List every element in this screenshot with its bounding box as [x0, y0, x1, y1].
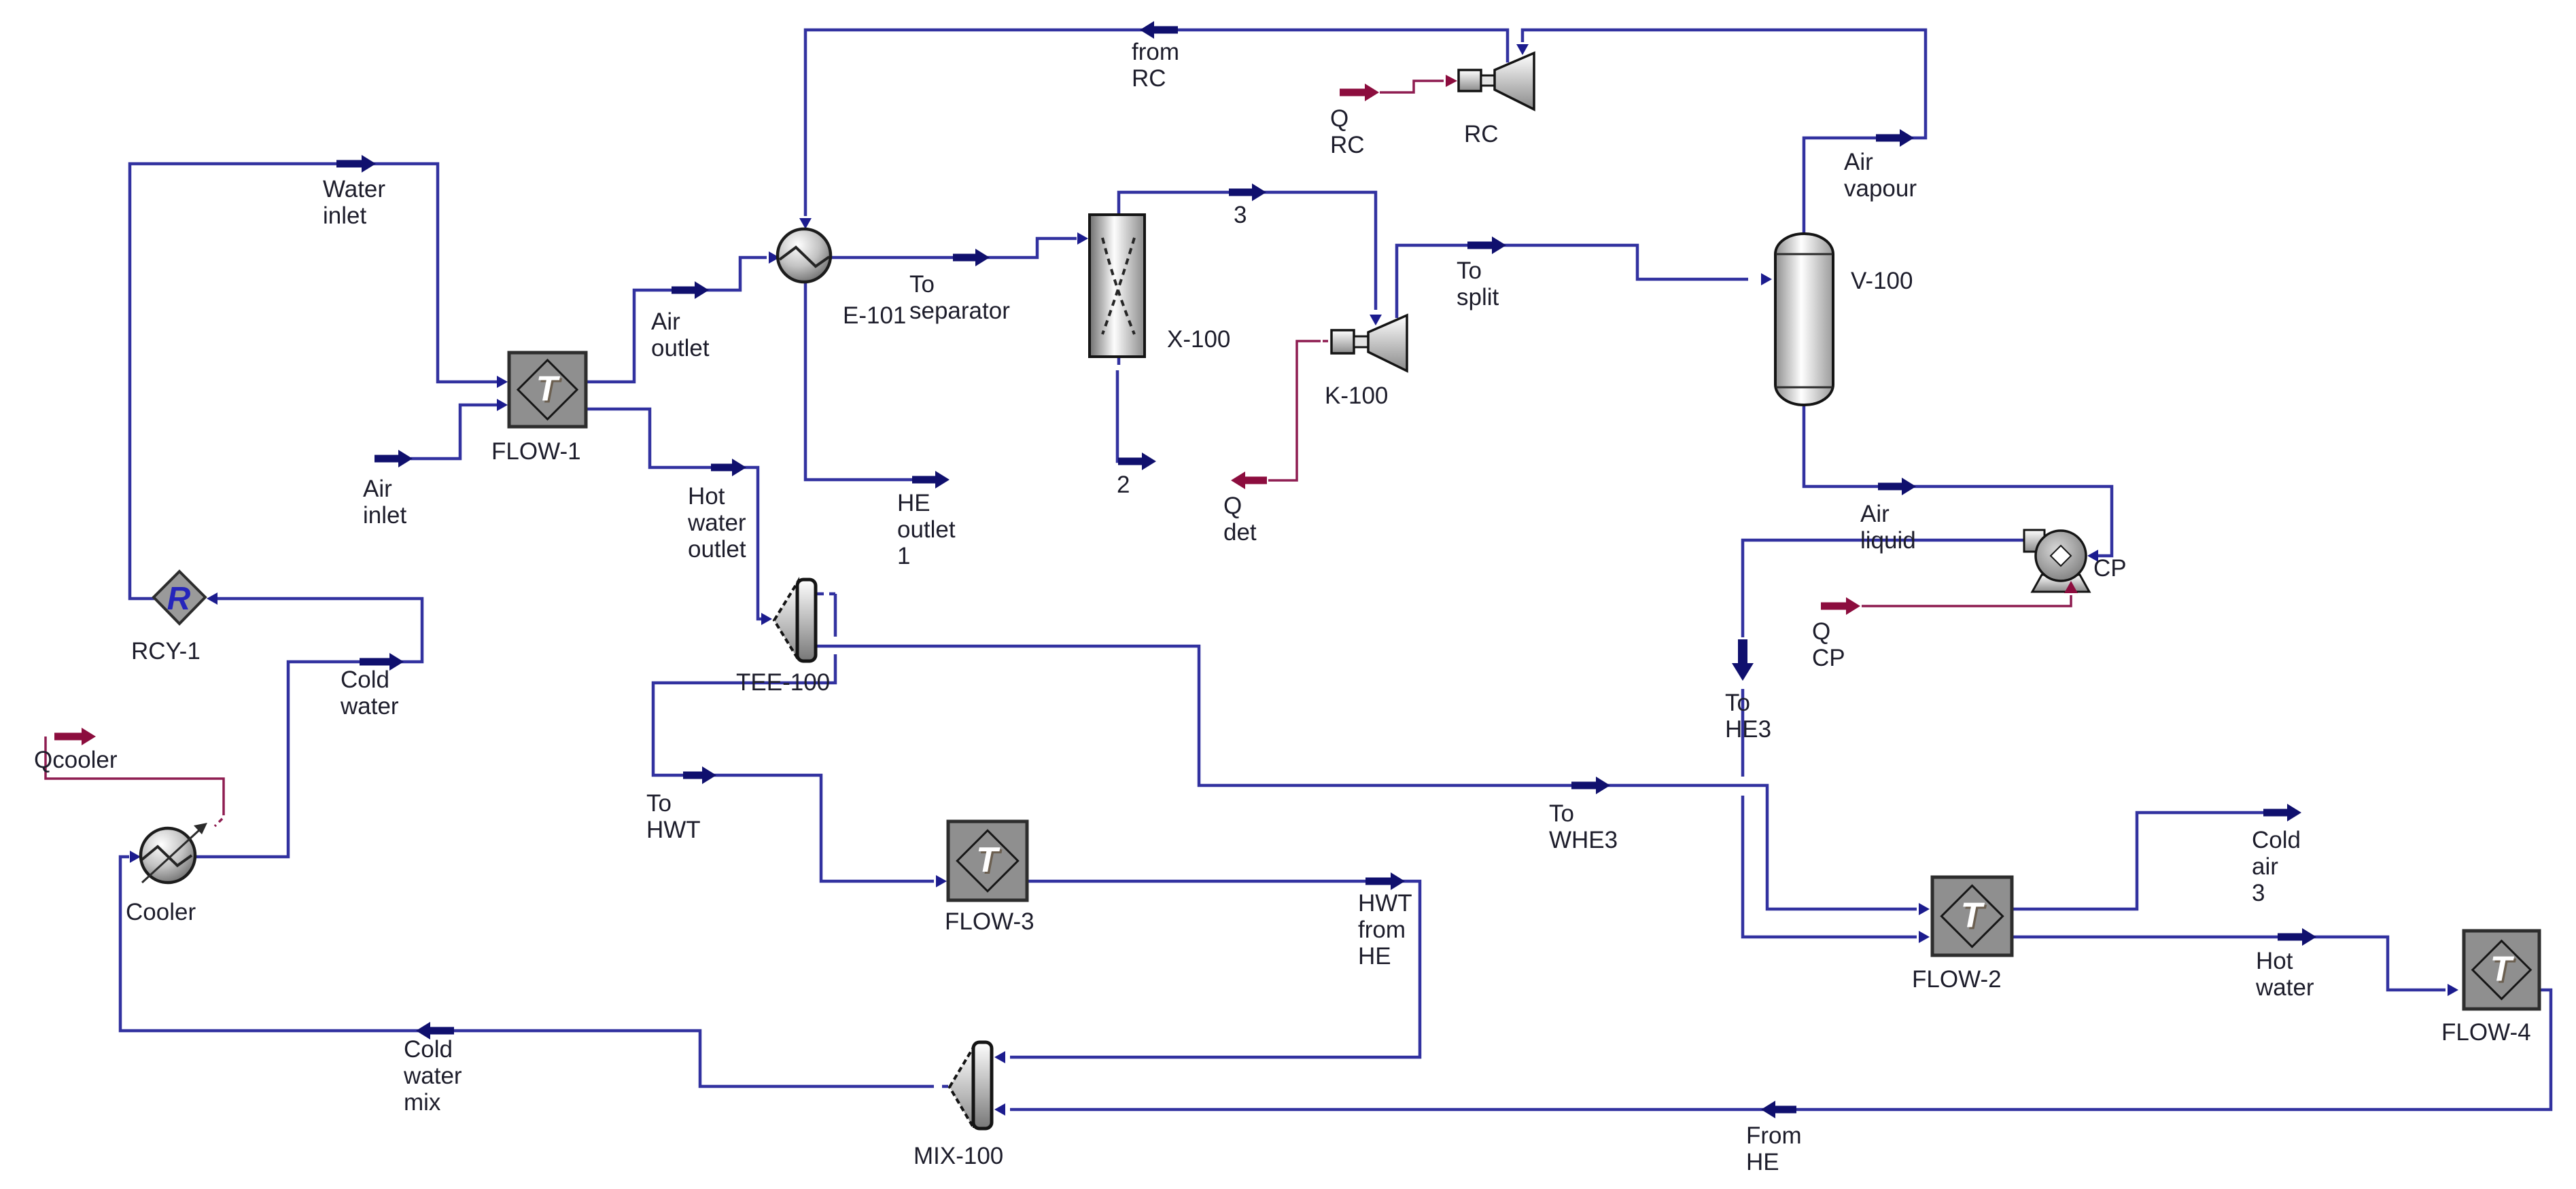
svg-text:split: split: [1457, 284, 1499, 310]
svg-text:HE: HE: [1358, 943, 1391, 970]
svg-text:T: T: [976, 840, 1000, 880]
svg-text:Q: Q: [1223, 493, 1242, 519]
svg-text:water: water: [687, 510, 746, 536]
svg-text:T: T: [1961, 896, 1985, 936]
svg-text:Air: Air: [1844, 149, 1873, 175]
svg-text:Air: Air: [363, 476, 392, 502]
svg-text:RC: RC: [1132, 65, 1166, 92]
svg-text:RC: RC: [1330, 132, 1365, 158]
svg-text:FLOW-1: FLOW-1: [491, 438, 581, 465]
svg-text:HWT: HWT: [1358, 890, 1412, 917]
svg-text:air: air: [2252, 853, 2278, 880]
svg-text:outlet: outlet: [651, 335, 710, 361]
svg-text:3: 3: [1234, 202, 1247, 228]
svg-text:vapour: vapour: [1844, 175, 1917, 202]
svg-text:HE3: HE3: [1725, 716, 1771, 743]
svg-text:CP: CP: [1812, 645, 1845, 671]
svg-text:outlet: outlet: [897, 516, 956, 543]
svg-text:HWT: HWT: [646, 817, 701, 843]
svg-text:HE: HE: [1746, 1149, 1779, 1175]
svg-text:water: water: [2255, 974, 2314, 1001]
svg-text:det: det: [1223, 519, 1257, 546]
svg-text:1: 1: [897, 543, 910, 569]
svg-text:T: T: [536, 370, 561, 409]
svg-text:water: water: [403, 1063, 462, 1089]
svg-text:outlet: outlet: [688, 536, 746, 563]
svg-text:TEE-100: TEE-100: [736, 669, 830, 696]
svg-text:2: 2: [1117, 472, 1130, 498]
svg-text:To: To: [646, 790, 672, 817]
svg-text:from: from: [1132, 39, 1179, 65]
svg-text:Air: Air: [1860, 501, 1890, 527]
svg-text:From: From: [1746, 1122, 1802, 1149]
svg-text:To: To: [1549, 800, 1574, 827]
svg-text:Hot: Hot: [688, 483, 725, 510]
svg-text:mix: mix: [404, 1089, 441, 1116]
svg-text:WHE3: WHE3: [1549, 827, 1618, 853]
svg-text:HE: HE: [897, 490, 930, 516]
svg-text:from: from: [1358, 917, 1406, 943]
svg-text:RC: RC: [1464, 121, 1499, 147]
svg-text:Cold: Cold: [404, 1036, 453, 1063]
svg-text:To: To: [909, 271, 935, 298]
svg-text:liquid: liquid: [1860, 527, 1916, 554]
svg-text:Q: Q: [1812, 618, 1830, 645]
svg-text:Q: Q: [1330, 105, 1348, 132]
svg-text:RCY-1: RCY-1: [131, 638, 201, 664]
svg-text:FLOW-4: FLOW-4: [2441, 1019, 2531, 1046]
svg-text:separator: separator: [909, 298, 1010, 324]
svg-text:CP: CP: [2093, 555, 2127, 582]
svg-text:water: water: [340, 693, 399, 720]
svg-text:inlet: inlet: [363, 502, 406, 529]
svg-text:3: 3: [2252, 880, 2265, 906]
svg-text:X-100: X-100: [1167, 326, 1230, 353]
svg-text:MIX-100: MIX-100: [913, 1143, 1003, 1169]
svg-text:inlet: inlet: [323, 202, 366, 229]
svg-text:Air: Air: [651, 308, 680, 335]
svg-text:FLOW-2: FLOW-2: [1912, 966, 2002, 993]
svg-text:V-100: V-100: [1851, 268, 1913, 294]
svg-text:Cold: Cold: [341, 667, 389, 693]
svg-text:T: T: [2490, 950, 2515, 989]
svg-text:E-101: E-101: [843, 302, 906, 329]
svg-text:Cold: Cold: [2252, 827, 2301, 853]
svg-text:Hot: Hot: [2256, 948, 2293, 974]
svg-text:R: R: [167, 581, 191, 617]
svg-text:Qcooler: Qcooler: [34, 747, 118, 773]
svg-text:To: To: [1725, 690, 1750, 716]
svg-text:To: To: [1457, 258, 1482, 284]
svg-text:Cooler: Cooler: [126, 899, 196, 925]
svg-text:K-100: K-100: [1325, 383, 1388, 409]
svg-text:Water: Water: [323, 176, 385, 202]
svg-text:FLOW-3: FLOW-3: [945, 908, 1034, 935]
